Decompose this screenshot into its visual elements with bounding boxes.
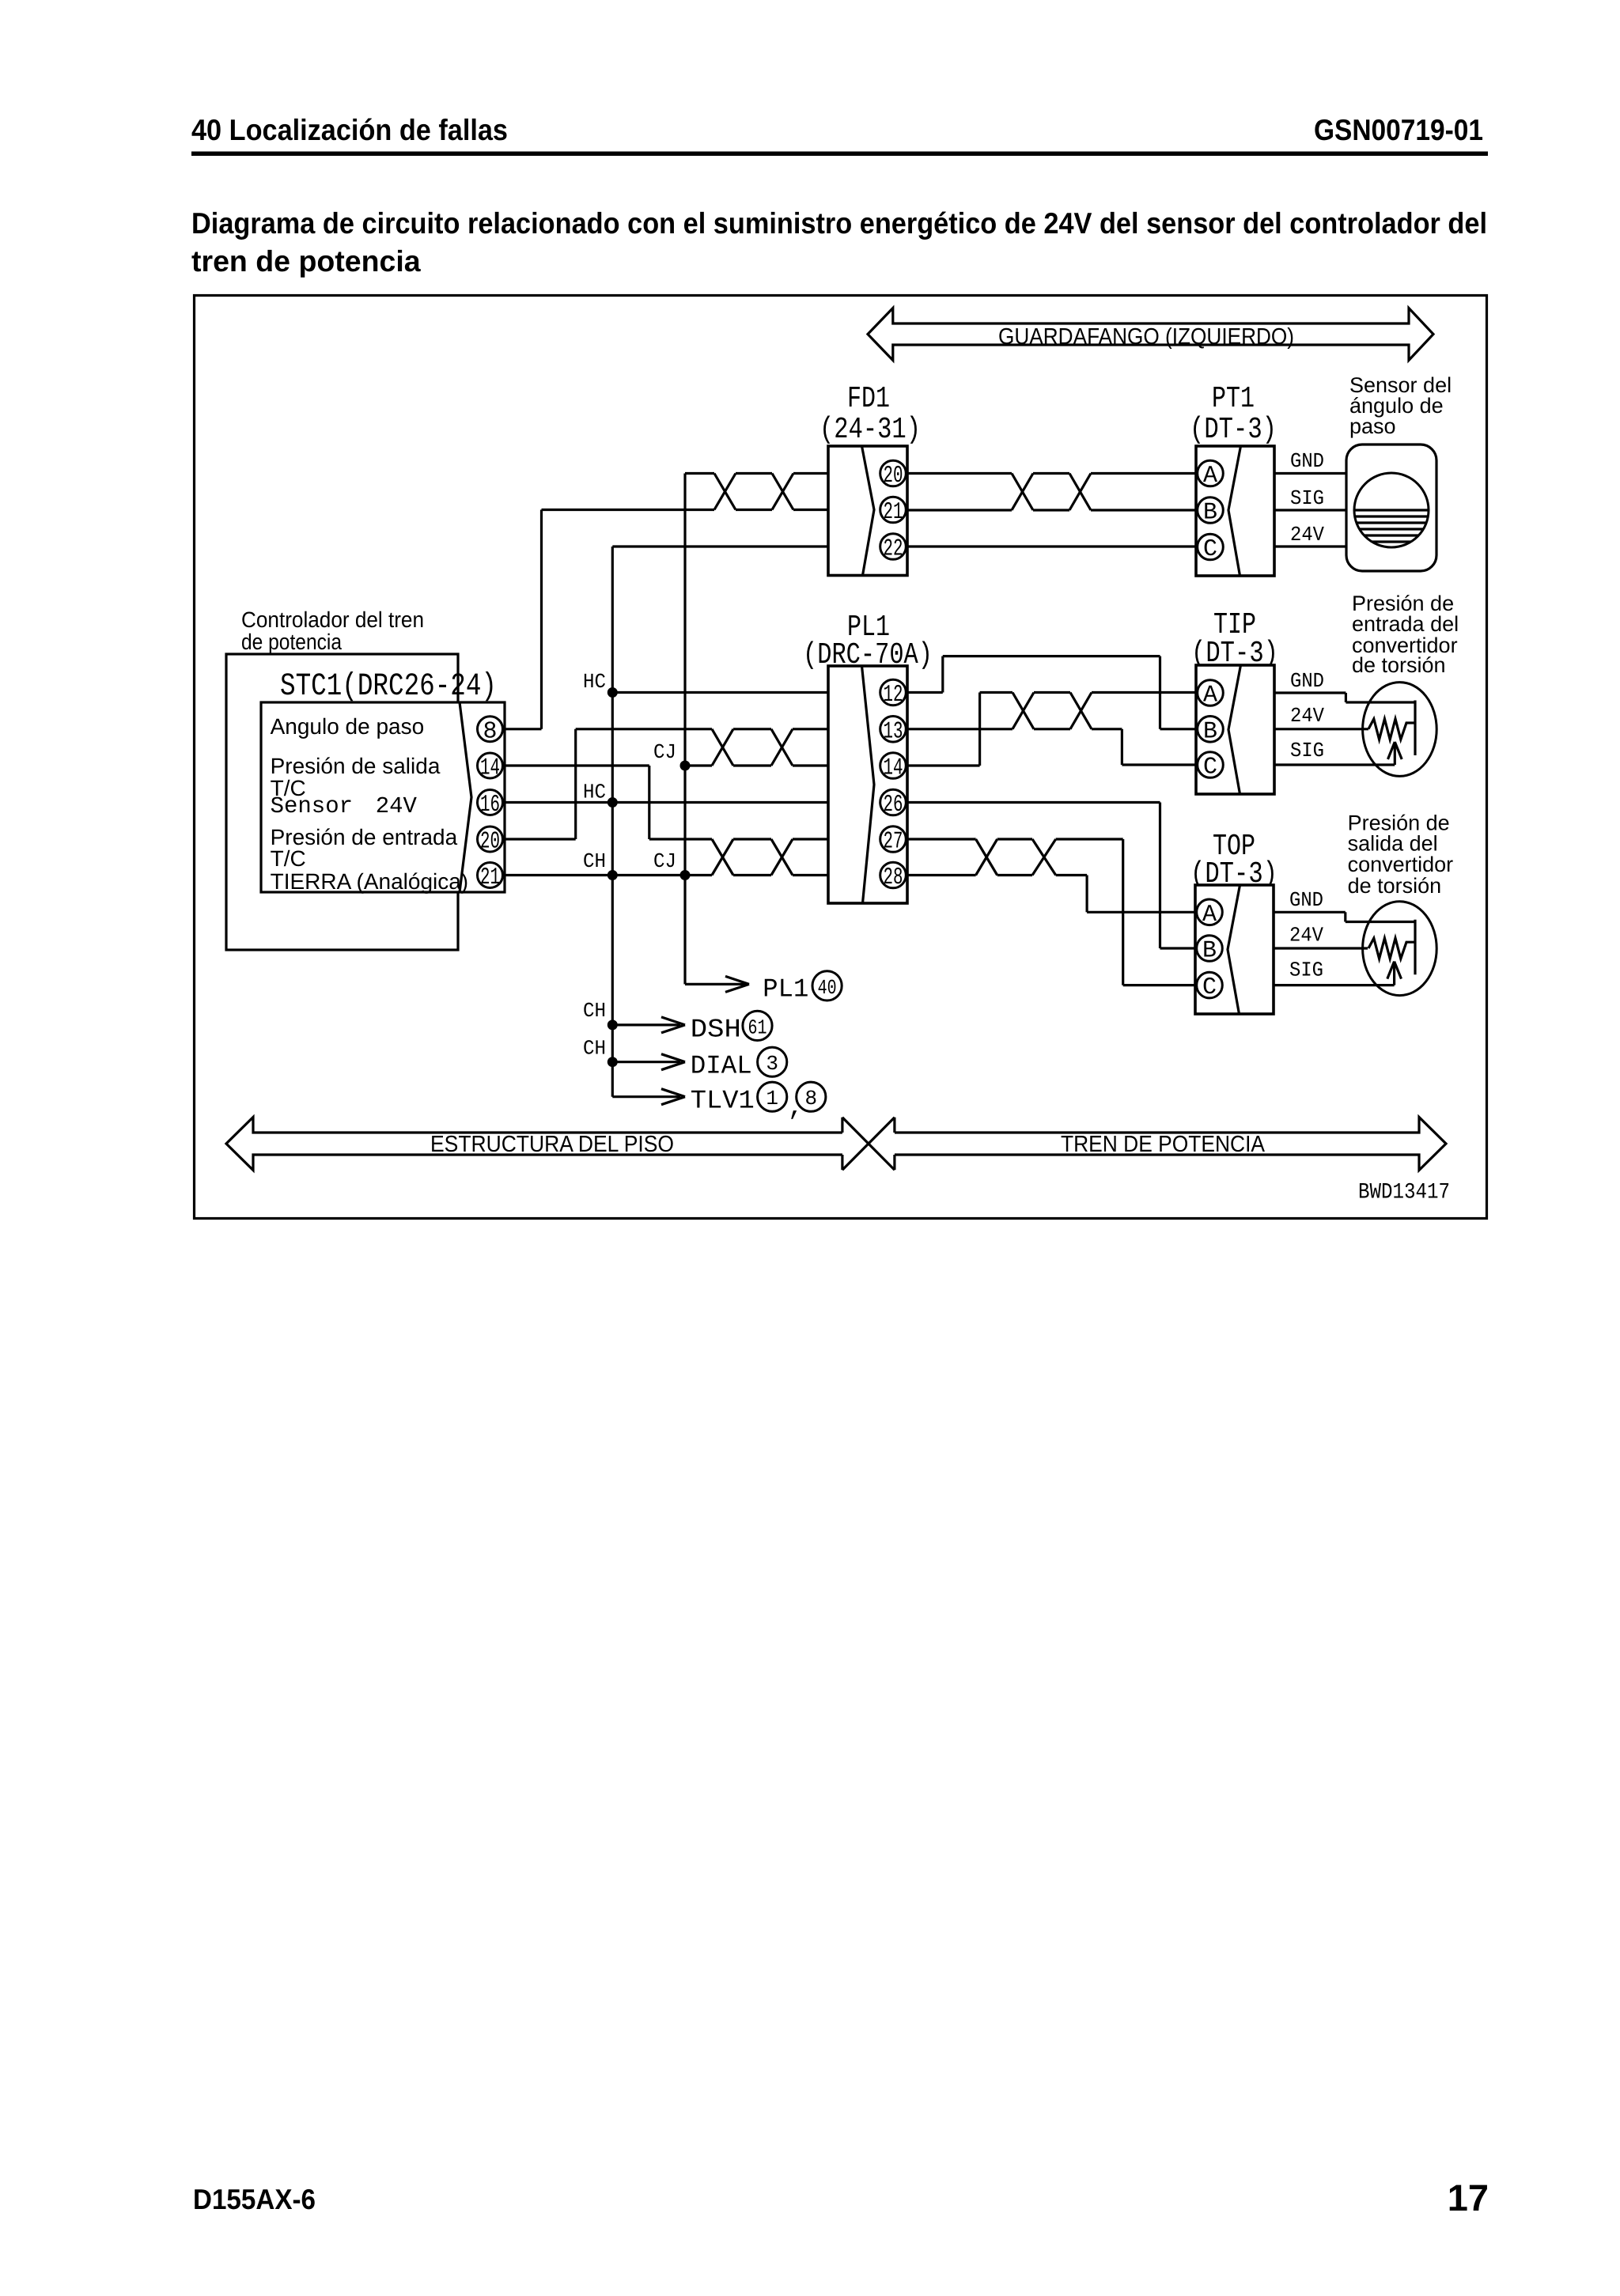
- twisted pair PL1-TIP: [1012, 693, 1197, 766]
- connector PT1: [1196, 446, 1274, 576]
- wire TIP C SIG to sensor wiper: [1274, 739, 1402, 765]
- svg-text:26: 26: [884, 792, 903, 819]
- svg-text:GUARDAFANGO (IZQUIERDO): GUARDAFANGO (IZQUIERDO): [998, 324, 1294, 350]
- connector TOP: [1195, 885, 1274, 1014]
- label STC1(DRC26-24): [280, 669, 497, 705]
- label sensor del angulo de paso: [1349, 373, 1452, 438]
- svg-text:A: A: [1202, 902, 1217, 929]
- wire CJ row to twisted pair: [685, 764, 712, 766]
- svg-text:Diagrama de circuito relaciona: Diagrama de circuito relacionado con el …: [191, 206, 1487, 240]
- reference arrow DIAL 3: [612, 1047, 787, 1080]
- svg-text:16: 16: [480, 792, 500, 819]
- STC1 pins: [478, 717, 503, 891]
- svg-text:1: 1: [766, 1087, 778, 1110]
- svg-text:convertidor: convertidor: [1348, 853, 1454, 876]
- svg-text:B: B: [1203, 500, 1217, 527]
- label PL1 (DRC-70A): [803, 611, 933, 672]
- svg-text:BWD13417: BWD13417: [1358, 1181, 1450, 1205]
- wire TOP C SIG to sensor wiper: [1274, 959, 1402, 985]
- wire TIP B 24V to sensor: [1274, 704, 1368, 729]
- wire STC1 pin16 to PL1 pin26: [505, 801, 880, 804]
- wire vertical CJ net (x=866): [683, 474, 686, 985]
- svg-text:TREN DE POTENCIA: TREN DE POTENCIA: [1061, 1132, 1266, 1157]
- svg-text:FD1: FD1: [847, 382, 890, 416]
- svg-text:de torsión: de torsión: [1352, 653, 1446, 677]
- svg-text:(24-31): (24-31): [819, 413, 921, 447]
- title line 2: [191, 244, 422, 278]
- wire FD1 pin20 left + twisted pair: [542, 474, 829, 510]
- reference arrow DSH 61: [612, 1011, 772, 1044]
- svg-text:SIG: SIG: [1290, 486, 1324, 510]
- junction HC on row pin12: [583, 670, 618, 698]
- harness break crossing symbol: [842, 1118, 895, 1171]
- twisted pair STC1-PL1 rows 13/14: [712, 729, 880, 766]
- title line 1: [191, 206, 1487, 240]
- svg-text:GND: GND: [1289, 888, 1323, 912]
- banner arrow GUARDAFANGO (IZQUIERDO): [868, 308, 1433, 361]
- svg-text:HC: HC: [583, 780, 606, 804]
- wire STC1 pin14 jog down: [505, 766, 712, 839]
- connector TIP: [1196, 665, 1274, 794]
- svg-text:A: A: [1203, 683, 1217, 709]
- wire TIP A GND to sensor: [1274, 669, 1415, 702]
- svg-text:(DT-3): (DT-3): [1190, 413, 1277, 447]
- label presion de salida del convertidor: [1348, 811, 1454, 898]
- footer page number: [1448, 2177, 1489, 2218]
- svg-text:entrada del: entrada del: [1352, 612, 1459, 636]
- svg-text:HC: HC: [583, 670, 606, 694]
- label TIP (DT-3): [1191, 608, 1278, 671]
- svg-text:14: 14: [480, 755, 500, 782]
- svg-text:SIG: SIG: [1289, 959, 1323, 982]
- wire PL1 pin14 jog up: [906, 693, 1012, 766]
- svg-text:GND: GND: [1290, 669, 1324, 693]
- torque converter inlet pressure sensor: [1363, 683, 1437, 777]
- wire FD1 to PT1 twisted pair rows A/B: [907, 474, 1196, 511]
- svg-text:40: 40: [818, 976, 837, 1000]
- svg-text:24V: 24V: [376, 793, 418, 819]
- svg-text:8: 8: [804, 1087, 817, 1110]
- svg-text:24V: 24V: [1290, 523, 1324, 547]
- page header right code: [1314, 113, 1483, 146]
- footer model D155AX-6: [193, 2183, 316, 2215]
- svg-text:B: B: [1202, 938, 1217, 965]
- svg-text:Controlador del tren: Controlador del tren: [241, 607, 424, 632]
- svg-text:C: C: [1203, 536, 1217, 563]
- svg-text:CH: CH: [583, 849, 606, 873]
- svg-text:T/C: T/C: [271, 846, 306, 871]
- label TOP (DT-3): [1190, 830, 1277, 891]
- junction CH on row pin21: [583, 849, 618, 880]
- svg-text:D155AX-6: D155AX-6: [193, 2183, 316, 2215]
- svg-text:20: 20: [480, 829, 500, 856]
- svg-text:TLV1: TLV1: [691, 1087, 755, 1116]
- torque converter outlet pressure sensor: [1363, 902, 1437, 996]
- svg-text:CH: CH: [583, 1037, 606, 1061]
- svg-text:3: 3: [766, 1052, 778, 1076]
- svg-text:SIG: SIG: [1290, 739, 1324, 762]
- svg-text:TIERRA (Analógica): TIERRA (Analógica): [271, 869, 469, 894]
- connector FD1: [828, 446, 907, 576]
- wire HC row to PL1 pin12: [612, 691, 880, 694]
- svg-text:21: 21: [884, 499, 903, 526]
- svg-text:Sensor: Sensor: [271, 793, 353, 819]
- svg-text:DSH: DSH: [691, 1015, 741, 1044]
- wire PL1 pin27 to twisted pair: [906, 838, 976, 840]
- junction CJ on row 14: [653, 740, 691, 771]
- junction CH DSH: [583, 999, 618, 1030]
- svg-text:17: 17: [1448, 2177, 1489, 2218]
- reference arrow PL1 40: [685, 971, 842, 1004]
- svg-text:GSN00719-01: GSN00719-01: [1314, 113, 1483, 146]
- wire FD1 pin22 to PT1 C: [907, 545, 1196, 547]
- wire vertical HC net (x=774): [611, 547, 614, 1097]
- wire PT1 C to sensor (24V): [1274, 523, 1346, 547]
- wire PL1 pin28 to twisted pair: [906, 874, 976, 876]
- header rule: [191, 152, 1488, 157]
- svg-text:DIAL: DIAL: [691, 1051, 752, 1080]
- svg-text:24V: 24V: [1290, 704, 1324, 728]
- pitch angle sensor icon: [1346, 444, 1436, 571]
- twisted pair PL1-TOP: [976, 839, 1196, 985]
- svg-text:tren de potencia: tren de potencia: [191, 244, 422, 278]
- svg-text:B: B: [1203, 718, 1217, 745]
- svg-text:40 Localización de fallas: 40 Localización de fallas: [191, 113, 508, 146]
- label controlador del tren de potencia: [241, 607, 424, 654]
- wire FD1 pin22 left: [612, 545, 828, 547]
- wire PL1 pin26 to TOP B: [906, 803, 1196, 949]
- svg-text:C: C: [1203, 755, 1217, 781]
- label FD1 (24-31): [819, 382, 921, 447]
- banner arrow ESTRUCTURA DEL PISO: [226, 1118, 842, 1171]
- banner arrow TREN DE POTENCIA: [895, 1118, 1446, 1171]
- reference arrow TLV1 1 8: [612, 1082, 826, 1122]
- svg-text:PT1: PT1: [1212, 382, 1255, 416]
- svg-text:paso: paso: [1349, 414, 1396, 438]
- svg-text:8: 8: [483, 718, 497, 745]
- svg-text:PL1: PL1: [763, 975, 808, 1004]
- svg-text:Angulo de paso: Angulo de paso: [271, 714, 425, 739]
- svg-text:CH: CH: [583, 999, 606, 1023]
- wire PT1 A to sensor (GND): [1274, 449, 1346, 474]
- svg-text:C: C: [1202, 974, 1217, 1001]
- wire TOP A GND to sensor: [1274, 888, 1415, 922]
- svg-text:24V: 24V: [1289, 924, 1323, 948]
- svg-text:13: 13: [884, 718, 903, 745]
- svg-text:STC1(DRC26-24): STC1(DRC26-24): [280, 669, 497, 705]
- junction CJ on row pin21: [653, 849, 691, 880]
- svg-text:A: A: [1203, 463, 1217, 490]
- svg-text:28: 28: [884, 864, 903, 891]
- STC1 signal labels: [271, 714, 469, 894]
- svg-text:Presión de salida: Presión de salida: [271, 754, 441, 778]
- junction HC on row pin16: [583, 780, 618, 808]
- page header left title: [191, 113, 508, 146]
- label presion de entrada del convertidor: [1352, 592, 1459, 677]
- wire TOP B 24V to sensor: [1274, 924, 1368, 949]
- wire vertical from STC1 pin8 to FD1 pin21 (x=684.5): [505, 510, 542, 729]
- STC1 pin box: [261, 702, 505, 892]
- wire PT1 B to sensor (SIG): [1274, 486, 1346, 510]
- connector PL1: [828, 666, 907, 903]
- junction CH DIAL: [583, 1037, 618, 1068]
- svg-text:GND: GND: [1290, 449, 1324, 473]
- svg-text:61: 61: [748, 1016, 767, 1039]
- svg-text:22: 22: [884, 536, 903, 563]
- label PT1 (DT-3): [1190, 382, 1277, 447]
- diagram border frame: [195, 296, 1487, 1219]
- twisted pair STC1-PL1 rows 27/28: [712, 839, 880, 876]
- svg-text:12: 12: [884, 682, 903, 709]
- svg-text:ESTRUCTURA DEL PISO: ESTRUCTURA DEL PISO: [430, 1132, 674, 1157]
- wire STC1 pin21 to twisted pair: [505, 874, 712, 876]
- svg-text:21: 21: [480, 864, 500, 891]
- figure number BWD13417: [1358, 1181, 1450, 1205]
- svg-text:CJ: CJ: [653, 740, 676, 764]
- wire PL1 pin12 over to TIP B: [906, 656, 1197, 729]
- svg-text:27: 27: [884, 829, 903, 856]
- STC1 controller outer box: [226, 654, 458, 950]
- svg-text:20: 20: [884, 463, 903, 490]
- svg-text:14: 14: [884, 755, 903, 782]
- svg-text:CJ: CJ: [653, 849, 676, 873]
- svg-text:de torsión: de torsión: [1348, 874, 1442, 898]
- wire PL1 pin13 to twisted pair: [906, 728, 1012, 730]
- wire STC1 pin20 jog up: [505, 729, 712, 839]
- svg-text:salida del: salida del: [1348, 832, 1438, 856]
- svg-text:de potencia: de potencia: [241, 630, 342, 654]
